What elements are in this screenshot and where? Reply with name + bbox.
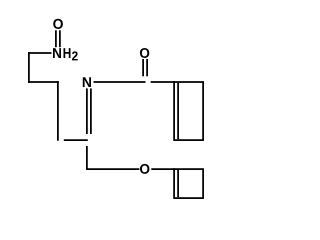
bond C6-ring1 horizontal	[151, 81, 175, 83]
ring 2 inner double-bond line	[177, 170, 179, 197]
bond C5-C7 vertical with vertex gap	[86, 146, 88, 170]
atom N1 label H of NH2	[63, 48, 70, 58]
ring 2 (bottom-right rectangle ring)	[174, 169, 203, 198]
bond N2-C6 horizontal to carbonyl carbon	[94, 81, 146, 83]
double bond N2=C5 left line	[86, 88, 88, 134]
double bond N2=C5 right line	[90, 88, 92, 134]
bond O3-ring2 horizontal	[151, 168, 175, 170]
double bond C6=O2 left line	[142, 59, 144, 76]
atom N1 label N of NH2	[53, 48, 61, 58]
atom O1 (amide oxygen label)	[53, 19, 63, 29]
ring 1 inner double-bond line	[177, 83, 179, 139]
bond C3-C4 vertical	[57, 81, 59, 141]
double bond C6=O2 right line	[146, 59, 148, 76]
double bond O1=N1 right line	[59, 30, 61, 47]
bond C4-C5 horizontal with vertex gap	[64, 139, 88, 141]
bond C7-O3 horizontal	[86, 168, 139, 170]
bond C1-C2 vertical	[28, 52, 30, 83]
double bond O1=N1 left line	[55, 30, 57, 47]
atom O2 (carbonyl oxygen label)	[140, 48, 149, 58]
atom N1 label subscript 2 of NH2	[72, 51, 78, 60]
bond C1-N1 horizontal	[28, 52, 52, 54]
atom O3 (ether oxygen label)	[140, 164, 149, 174]
ring 1 (top-right rectangle ring)	[174, 82, 203, 140]
bond C2-C3 horizontal	[28, 81, 59, 83]
atom N2 (imine nitrogen label)	[83, 77, 91, 87]
